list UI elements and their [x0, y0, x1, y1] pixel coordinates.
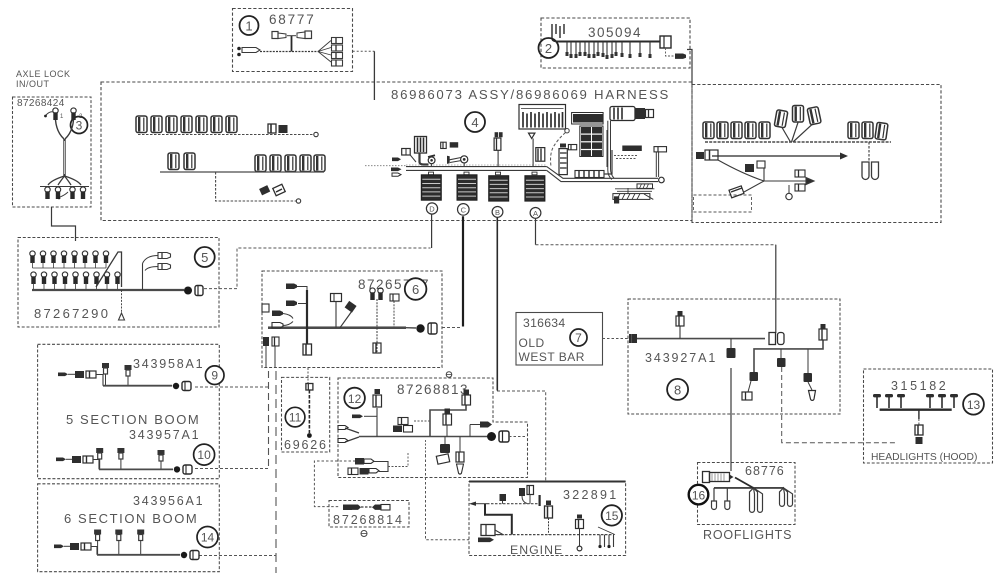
node D — [426, 203, 437, 214]
right compartment: twin stub connectors right — [795, 170, 805, 191]
callout circle 7 — [570, 329, 587, 346]
svg-text:3: 3 — [76, 119, 83, 133]
harness 87265797: vertical trunk — [306, 290, 308, 344]
main harness: block C — [457, 175, 477, 200]
wire from box 2 down to right compartment — [687, 50, 692, 85]
box 5 87267290 outline — [18, 238, 219, 328]
node C — [458, 204, 470, 216]
svg-text:WEST BAR: WEST BAR — [519, 350, 585, 364]
label 343957A1 — [129, 428, 200, 442]
main harness: left bus terminators — [391, 158, 402, 177]
box 1 68777 outline — [233, 9, 353, 72]
harness 68777: left ring terminal — [237, 47, 260, 57]
box 4 main harness outline — [101, 82, 692, 221]
harness 322891: dangling sensor right — [576, 515, 584, 551]
main harness: connector row 2 left pair — [168, 153, 195, 170]
right compartment: left feed connector — [696, 150, 718, 160]
harness 87265797: mid sensor drop — [370, 288, 383, 353]
harness 87267290: upper pin row — [30, 251, 109, 263]
svg-text:87268814: 87268814 — [333, 513, 404, 527]
label ENGINE — [510, 543, 563, 557]
harness 68777: four end connectors — [332, 38, 343, 67]
node A — [530, 208, 541, 219]
label AXLE LOCK IN/OUT — [16, 69, 71, 89]
svg-text:2: 2 — [545, 41, 552, 56]
right compartment: right connector trio — [848, 122, 888, 140]
harness 68776: feed connector — [703, 472, 734, 483]
harness 343927A1: left drop pair — [742, 372, 758, 400]
callout circle 4 — [465, 112, 485, 132]
svg-text:87268424: 87268424 — [17, 98, 65, 109]
main harness: funnel mast — [529, 133, 535, 167]
svg-text:16: 16 — [692, 488, 706, 502]
callout circle 6 — [405, 278, 427, 300]
main harness: block D — [421, 175, 441, 200]
marker below 87268814 — [361, 531, 367, 537]
svg-text:87268813: 87268813 — [397, 382, 469, 397]
wire node C to box 6 bus — [442, 216, 463, 327]
harness 87267290: upper pin leads — [33, 262, 107, 268]
main harness: row 2 drop branch — [216, 172, 301, 203]
main harness: block B neck — [496, 172, 501, 175]
right compartment: drop to twin plugs — [862, 142, 879, 180]
harness 87268813: left fork lead — [338, 426, 359, 443]
label 6 SECTION BOOM — [64, 511, 198, 526]
marker on box 12 top — [446, 372, 452, 378]
harness 87265797: diagonal branch — [340, 301, 357, 328]
label 343927A1 — [645, 351, 717, 365]
box 3 87268424 outline — [13, 97, 92, 207]
harness 343927A1: receiver for node A — [769, 333, 784, 345]
svg-text:6 SECTION BOOM: 6 SECTION BOOM — [64, 511, 198, 526]
harness 87268813: stub with arrow right — [470, 422, 492, 437]
harness 305094: pigtail to small plug — [666, 48, 687, 59]
harness 315182: lamp bar — [880, 409, 952, 411]
main harness: riser pipe from turn assembly — [608, 121, 614, 180]
harness 315182: center drop connector — [915, 410, 923, 444]
right compartment: stub connectors near junction — [729, 161, 765, 198]
box 15 322891 engine outline — [469, 482, 626, 556]
main harness: connector row 2 right group — [255, 155, 325, 172]
harness 315182: right lamp trio — [926, 394, 958, 408]
main harness: block C neck — [464, 172, 469, 175]
callout circle 8 — [667, 379, 688, 400]
right compartment: connector bank of five — [703, 122, 770, 139]
box 6 87265797 outline — [262, 271, 442, 368]
main harness: fuse block grid — [572, 113, 604, 157]
label 87267290 — [34, 306, 110, 321]
harness 343927A1: top right connector — [819, 324, 827, 340]
label 87265797 — [358, 277, 430, 292]
harness 343927A1: mid drop connector — [777, 349, 786, 367]
right compartment: small loop terminal — [786, 185, 792, 200]
label 86986073 ASSY/86986069 HARNESS — [391, 87, 670, 102]
svg-text:68776: 68776 — [745, 464, 785, 478]
harness 343927A1: right drop pair — [804, 349, 816, 400]
main harness: float blocks above bus — [441, 142, 459, 148]
label ROOFLIGHTS — [703, 528, 792, 542]
label 343956A1 — [133, 494, 204, 508]
harness 343956A1: bus and end plug — [97, 551, 199, 560]
svg-text:HEADLIGHTS (HOOD): HEADLIGHTS (HOOD) — [871, 452, 977, 463]
harness 87265797: end eyelet and plug — [406, 323, 437, 334]
svg-text:343956A1: 343956A1 — [133, 494, 204, 508]
harness 87267290: lower pin leads to bus — [34, 283, 118, 290]
svg-text:IN/OUT: IN/OUT — [16, 79, 50, 89]
harness 322891: step trunk — [485, 504, 512, 535]
main harness: bus end ring — [659, 177, 665, 183]
svg-text:4: 4 — [471, 115, 478, 130]
svg-text:305094: 305094 — [588, 25, 642, 40]
main harness: stack connector mid right — [559, 144, 577, 175]
svg-text:13: 13 — [967, 398, 981, 412]
harness 68777: main lead wire — [260, 51, 318, 53]
wire from box 1 to main harness — [353, 51, 375, 100]
main harness: inline splice pair on row 1 — [268, 124, 288, 133]
harness 343927A1: top branch connector — [676, 311, 684, 339]
main harness: row 1 bus — [138, 132, 318, 136]
wire box 8 to rooflights — [730, 368, 732, 471]
wire node B branch to engine box — [497, 391, 546, 482]
harness 87268813: inline connectors center — [393, 418, 430, 433]
harness 322891: mid connector drop — [545, 501, 553, 535]
label 87268813 — [397, 382, 469, 397]
harness 87268813: sensor mast left — [373, 389, 382, 437]
main harness: tab box left — [402, 149, 416, 163]
harness 87267290: lower pin row — [31, 272, 120, 284]
harness 87265797: upper-left stub connectors — [286, 284, 307, 307]
main harness: lamp bar hatched 2 — [613, 188, 653, 204]
svg-text:15: 15 — [605, 509, 619, 523]
harness 87268814: inline extension leads — [343, 505, 390, 511]
svg-text:9: 9 — [211, 369, 218, 383]
main harness: block D neck — [429, 172, 434, 175]
harness 87268813: main bus — [359, 436, 487, 438]
main harness: boss fitting 2 with arm — [447, 156, 468, 167]
main harness: block A neck — [532, 172, 537, 175]
harness 87268813: mid sensor on bus — [443, 409, 452, 437]
svg-text:6: 6 — [412, 282, 419, 297]
harness 87267290: end eyelet and plug — [184, 286, 203, 296]
box 87268814 outline — [329, 501, 409, 528]
wire boom riser left — [268, 371, 270, 469]
harness 87265797: left fork connectors — [272, 311, 293, 329]
callout circle 3 — [71, 117, 88, 134]
svg-text:343927A1: 343927A1 — [645, 351, 717, 365]
harness 305094: main bus — [552, 38, 660, 42]
harness 343956A1: tee connectors — [94, 530, 144, 555]
wire box 12 to box 87268814 — [314, 461, 360, 507]
wire box 10 output — [195, 468, 269, 470]
main harness: cab comb connector — [519, 105, 566, 130]
harness 322891: end bar on lateral — [538, 495, 540, 506]
main harness: striped block right of mast — [536, 148, 545, 162]
box 8 343927A1 outline — [628, 299, 840, 414]
svg-text:ENGINE: ENGINE — [510, 543, 563, 557]
harness 343927A1: rooflight branch connector — [727, 339, 736, 358]
main harness: turn assembly top right — [610, 107, 654, 121]
harness 68776: single prongs — [712, 488, 730, 510]
right compartment: fan wires to junction — [782, 123, 812, 143]
svg-text:315182: 315182 — [891, 379, 948, 393]
callout circle 14 — [197, 527, 218, 548]
label 68776 — [745, 464, 785, 478]
harness 343927A1: left end connector — [629, 334, 637, 343]
harness 343927A1: main bus — [636, 338, 765, 340]
harness 87267290: trunk chamfer — [96, 252, 122, 287]
callout circle 5 — [195, 247, 215, 267]
wire box 9 output — [195, 386, 269, 388]
main harness: central bus pipe — [365, 165, 547, 170]
svg-text:10: 10 — [197, 448, 211, 462]
main harness: block B — [489, 176, 509, 201]
box 16 68776 rooflights outline — [698, 463, 796, 525]
box 13 315182 headlights outline — [864, 369, 993, 463]
callout circle 11 — [285, 407, 305, 427]
harness 305094: end connector block — [660, 36, 671, 48]
main harness: riser to relay shelf — [604, 130, 612, 174]
box 7 316634 OLD WEST BAR outline — [516, 313, 603, 366]
svg-text:AXLE LOCK: AXLE LOCK — [16, 69, 71, 79]
harness 87268424: y-stem — [56, 120, 74, 176]
harness 322891: right comb — [598, 527, 615, 548]
svg-text:8: 8 — [674, 382, 681, 397]
harness 305094: hanging pin pairs — [566, 42, 652, 60]
svg-text:5: 5 — [201, 250, 208, 265]
callout circle 9 — [205, 366, 224, 385]
callout circle 13 — [963, 394, 984, 415]
label 69626 — [284, 438, 328, 452]
main harness: block A — [525, 176, 545, 201]
harness 343956A1: lead-in connectors — [54, 543, 97, 555]
box 14 six section boom outline — [38, 484, 220, 572]
right compartment: three angled connectors — [774, 106, 821, 128]
harness 87267290: upper right stub connectors — [143, 253, 171, 291]
harness 343958A1: lead-in connectors — [58, 371, 103, 386]
main harness: striped manifold strip — [575, 171, 604, 178]
svg-text:A: A — [533, 209, 538, 218]
svg-text:322891: 322891 — [563, 488, 619, 502]
label 87268424 — [17, 98, 65, 109]
main harness: sensor mast — [494, 132, 503, 166]
harness 305094: pigtail comb top left — [552, 24, 564, 38]
main harness: lamp bar hatched 1 — [615, 184, 654, 191]
harness 69626: jumper lead — [306, 384, 313, 438]
harness 87267290: drop lead below bus — [119, 290, 125, 320]
label 87268814 — [333, 513, 404, 527]
harness 322891: lower bus — [497, 534, 614, 536]
wire boom riser right — [275, 371, 277, 573]
label 68777 — [269, 12, 316, 27]
main harness: bus bend and lower run — [547, 167, 658, 182]
harness 343957A1: lead-in connectors — [56, 456, 99, 469]
main harness: connector row 1 — [136, 116, 237, 133]
node B — [492, 207, 503, 218]
callout circle 1 — [240, 16, 259, 35]
svg-text:69626: 69626 — [284, 438, 328, 452]
svg-text:1: 1 — [245, 19, 252, 34]
harness 87268813: bottom-left pigtail connectors — [348, 452, 408, 475]
harness 87267290: main bus — [32, 289, 184, 291]
box 12 87268813 outline (notched) — [338, 378, 528, 478]
harness 87265797: relay box on stem — [331, 294, 342, 328]
harness 315182: left lamp trio — [873, 394, 905, 408]
harness 343927A1: second bus — [754, 340, 823, 372]
harness 87268424: top two terminals — [44, 108, 83, 120]
svg-text:343957A1: 343957A1 — [129, 428, 200, 442]
harness 68777: tee branch up — [291, 36, 293, 52]
harness 68776: bus — [714, 487, 784, 489]
label OLD WEST BAR — [519, 336, 585, 364]
main harness: tilted splice connectors on drop — [259, 184, 285, 195]
right compartment: second bus with arrow — [712, 153, 848, 160]
svg-text:B: B — [495, 208, 500, 217]
harness 343957A1: tee connectors — [96, 448, 164, 469]
callout circle 16 — [689, 485, 709, 505]
svg-text:12: 12 — [348, 392, 362, 406]
harness 87265797: trunk lower connector — [303, 344, 312, 355]
callout circle 2 — [539, 38, 559, 58]
box 11 69626 outline — [282, 377, 330, 452]
box 9/10 five section boom outline — [38, 344, 220, 478]
main harness: antenna drop right — [654, 147, 667, 177]
right compartment: lower junction branches — [718, 160, 814, 192]
harness 343958A1: bus and end plug — [103, 382, 191, 391]
right compartment: main bus — [705, 141, 891, 143]
harness 322891: twin connectors on lateral — [519, 486, 534, 504]
harness 87268424: lower fan — [40, 176, 89, 187]
main harness: row 2 bus — [160, 171, 324, 173]
harness 87268813: engine feed drop — [425, 440, 427, 455]
wire box 14 output — [199, 555, 276, 557]
svg-text:68777: 68777 — [269, 12, 316, 27]
harness 87268813: end eyelet and plug — [487, 431, 526, 442]
wire node A to box 8 — [536, 218, 776, 333]
label HEADLIGHTS (HOOD) — [871, 452, 977, 463]
harness 343958A1: tee connectors — [102, 363, 132, 386]
harness 87268813: upper branch with elbow — [430, 390, 471, 437]
svg-text:316634: 316634 — [523, 316, 565, 330]
box 2 305094 outline — [541, 18, 690, 68]
label 305094 — [588, 25, 642, 40]
harness 68776: twin prong center — [750, 488, 763, 513]
box 4 right compartment outline — [692, 85, 941, 223]
svg-text:14: 14 — [201, 531, 215, 545]
svg-text:5 SECTION BOOM: 5 SECTION BOOM — [66, 412, 200, 427]
label 5 SECTION BOOM — [66, 412, 200, 427]
harness 87265797: main bus — [268, 327, 406, 328]
harness 322891: left terminal block — [478, 525, 503, 543]
wire box 12 to engine box — [426, 455, 470, 540]
harness 68777: fan-out wires — [318, 41, 331, 63]
wire box 7 to box 8 — [603, 338, 634, 340]
svg-text:OLD: OLD — [519, 336, 545, 350]
harness 68776: twin prong right — [780, 488, 793, 507]
harness 87268813: below-bus blob connector — [436, 437, 450, 465]
label 315182 — [891, 379, 948, 393]
svg-text:11: 11 — [289, 411, 302, 425]
svg-text:ROOFLIGHTS: ROOFLIGHTS — [703, 528, 792, 542]
label 316634 — [523, 316, 565, 330]
wire from box 5 to node D — [204, 214, 432, 288]
callout circle 15 — [602, 505, 622, 525]
harness 87265797: small stub above bus right — [390, 294, 399, 327]
label 322891 — [563, 488, 619, 502]
wire box 8 to headlights — [782, 367, 898, 443]
harness 322891: sensor stub on lateral — [500, 494, 507, 504]
harness 87268424: four lower terminals — [45, 187, 86, 199]
svg-text:D: D — [429, 205, 435, 214]
harness 343957A1: bus and end plug — [99, 465, 192, 474]
main harness: comb tail wire — [551, 129, 570, 167]
wire from box 3 to box 5 — [52, 207, 76, 241]
main harness: keyboard connector — [415, 137, 429, 165]
label 343958A1 — [133, 357, 204, 371]
main harness: boss fitting 1 — [428, 155, 435, 166]
svg-text:87267290: 87267290 — [34, 306, 110, 321]
harness 68776: feed diagonal — [735, 478, 754, 489]
harness 87268813: stub pair left of mast — [352, 415, 377, 419]
callout circle 12 — [344, 388, 365, 409]
svg-text:C: C — [461, 205, 467, 214]
harness 87265797: bottom left drop connectors — [262, 304, 279, 367]
svg-text:7: 7 — [575, 331, 582, 345]
wire node B to box 12 — [496, 218, 498, 391]
wire box 11 to box 6 — [307, 368, 309, 384]
harness 87268813: lower right drop — [456, 437, 464, 475]
inner dashed enclosure in right compartment — [694, 195, 752, 212]
svg-text:343958A1: 343958A1 — [133, 357, 204, 371]
harness 322891: upper lateral with arrow — [469, 502, 540, 506]
svg-text:86986073 ASSY/86986069 HARNE: 86986073 ASSY/86986069 HARNESS — [391, 87, 670, 102]
main harness: small block pair right — [614, 146, 642, 159]
callout circle 10 — [194, 444, 215, 465]
harness 68777: upper pair connectors — [272, 31, 312, 39]
